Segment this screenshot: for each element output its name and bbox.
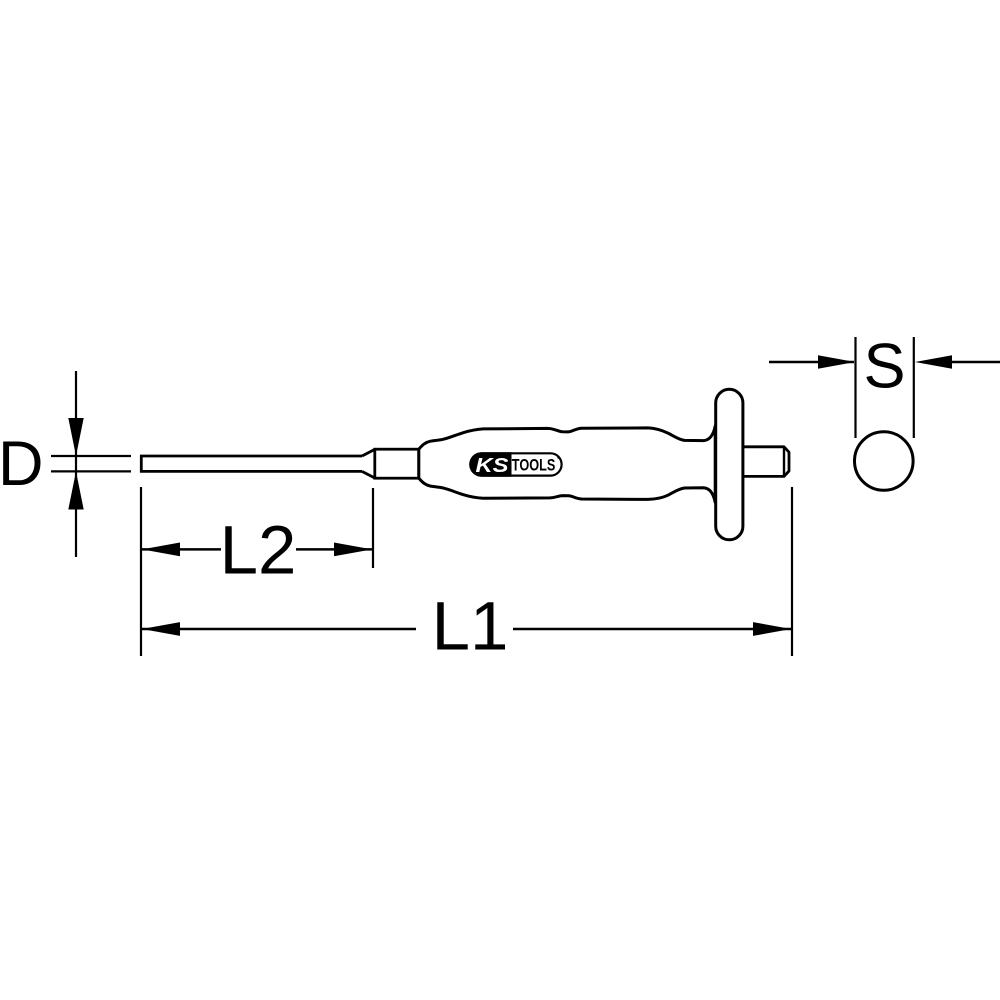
L2 right extension line — [372, 488, 374, 568]
D extension line bottom — [51, 470, 131, 472]
D dimension vertical line — [75, 371, 77, 557]
S dimension line right — [952, 361, 1000, 364]
S left extension line — [854, 337, 856, 438]
hand guard disc — [716, 389, 743, 540]
svg-text:KS: KS — [476, 455, 510, 477]
S right extension line — [913, 337, 915, 438]
D arrow down — [68, 418, 83, 456]
L1 dimension line left — [142, 628, 416, 631]
shank rectangle — [375, 449, 419, 478]
S arrow pointing right — [818, 355, 855, 368]
taper top — [362, 449, 375, 456]
S arrow pointing left — [915, 355, 952, 368]
striking cap — [742, 447, 789, 477]
L1 arrow left — [142, 622, 180, 636]
pin (thin rod) — [141, 456, 362, 471]
D extension line top — [51, 455, 131, 457]
svg-text:S: S — [863, 332, 905, 402]
D arrow up — [68, 471, 83, 509]
cross-section circle — [855, 432, 914, 491]
L2 arrow right — [334, 543, 372, 557]
svg-text:L2: L2 — [220, 512, 297, 589]
KS TOOLS logo pill — [470, 453, 561, 477]
L2 arrow left — [142, 543, 180, 557]
L2 dimension line left — [142, 548, 221, 551]
L1 dimension line right — [513, 628, 791, 631]
L1 right extension line — [791, 487, 793, 656]
cap chamfer line — [783, 447, 785, 477]
svg-text:TOOLS: TOOLS — [512, 456, 556, 475]
svg-text:D: D — [0, 429, 44, 499]
S dimension line left — [769, 361, 854, 364]
taper bottom — [362, 471, 375, 478]
L1 arrow right — [753, 622, 791, 636]
L2 dimension line right — [296, 548, 372, 551]
handle body — [419, 426, 715, 503]
L left shared extension line — [140, 487, 142, 656]
svg-text:L1: L1 — [432, 588, 509, 665]
